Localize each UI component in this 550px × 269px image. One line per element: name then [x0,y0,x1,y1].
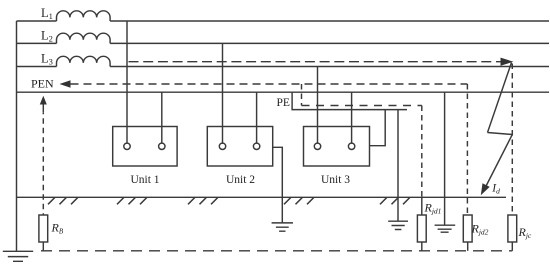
arrowhead fault right [501,58,514,66]
dashed riser Rjd2 to return line [466,84,468,215]
wire Rjd2 bottom lead [467,242,469,251]
svg-text:Rjd1: Rjd1 [424,201,442,216]
wire Unit3 PEN riser [351,92,353,143]
wire L2 line [17,42,550,44]
wire Unit3 chassis to PE [370,110,386,146]
terminal Unit2 left [219,143,225,149]
earth surface line [16,196,506,198]
wire PE down to ground electrode [397,110,399,222]
resistor Rjd2 [463,215,472,242]
terminal Unit1 right [159,143,165,149]
wire PEN repeated ground [444,92,446,225]
wire left bus vertical [16,21,18,251]
dashed return current line above PEN [71,83,468,85]
wire Unit3 L3 riser [317,67,319,144]
earth hatching group 3 [188,197,218,204]
dashed riser Rjc to fault point [511,64,513,216]
svg-text:PE: PE [277,97,290,109]
svg-text:RB: RB [51,221,64,236]
svg-text:Unit 2: Unit 2 [226,174,255,186]
terminal Unit3 left [314,143,320,149]
inductor winding L2 [57,33,111,43]
dashed riser RB to PEN [42,113,44,215]
box Unit 1 [113,127,177,167]
arrowhead return left [60,80,71,88]
svg-text:L2: L2 [41,29,53,44]
terminal Unit1 left [124,143,130,149]
svg-text:PEN: PEN [31,77,54,91]
dashed bottom reference earth line [41,250,512,252]
wire L1 line [17,20,550,22]
resistor Rjd1 [417,215,426,242]
arrowhead Id down-left [481,183,490,195]
box Unit 3 [304,127,370,167]
earth hatching group 5 [380,197,410,204]
dashed fault current line along L3 [129,61,501,63]
terminal Unit3 right [348,143,354,149]
ground electrode of PE [388,221,408,229]
wire PEN line [17,91,550,93]
fault bolt segment 1 [488,63,512,133]
earth hatching group 4 [284,197,314,204]
svg-text:L3: L3 [41,52,53,67]
wire Rjc bottom lead [511,242,513,251]
wire Rjd1 bottom lead [421,242,423,251]
fault bolt segment 2 [488,133,513,135]
terminal Unit2 right [253,143,259,149]
svg-text:Rjd2: Rjd2 [471,222,489,237]
wire L3 line [17,66,550,68]
svg-text:Id: Id [491,183,500,196]
resistor RB [39,215,48,242]
svg-text:L1: L1 [41,6,53,21]
ground electrode of PEN [435,225,456,232]
wire Rjd1 top lead [421,197,423,215]
dashed PE current line [302,105,422,107]
ground electrode of Unit2 [272,223,293,231]
box Unit 2 [207,127,272,167]
arrow shaft up to PEN [42,103,44,113]
arrowhead up to PEN [40,96,47,105]
dashed link PE to return line [301,84,303,106]
earth hatching group 1 [48,197,78,204]
wire Unit2 chassis to ground [273,147,283,223]
inductor winding L1 [57,11,111,21]
dashed riser Rjd1 to PE [421,106,423,198]
wire PE tap from PEN [292,92,407,109]
wire Unit1 PEN riser [161,92,163,143]
earth hatching group 2 [117,197,147,204]
svg-text:Unit 3: Unit 3 [321,174,350,186]
svg-text:Rjc: Rjc [518,225,532,240]
wire Unit2 PEN riser [256,92,258,143]
wire RB bottom lead [42,242,44,251]
resistor Rjc [508,215,517,242]
svg-text:Unit 1: Unit 1 [130,174,159,186]
wire Unit2 L2 riser [222,43,224,143]
inductor winding L3 [57,56,111,66]
wire Unit1 L1 riser [126,21,128,143]
fault bolt segment 3 [485,135,513,189]
ground electrode bottom-left [3,251,33,261]
